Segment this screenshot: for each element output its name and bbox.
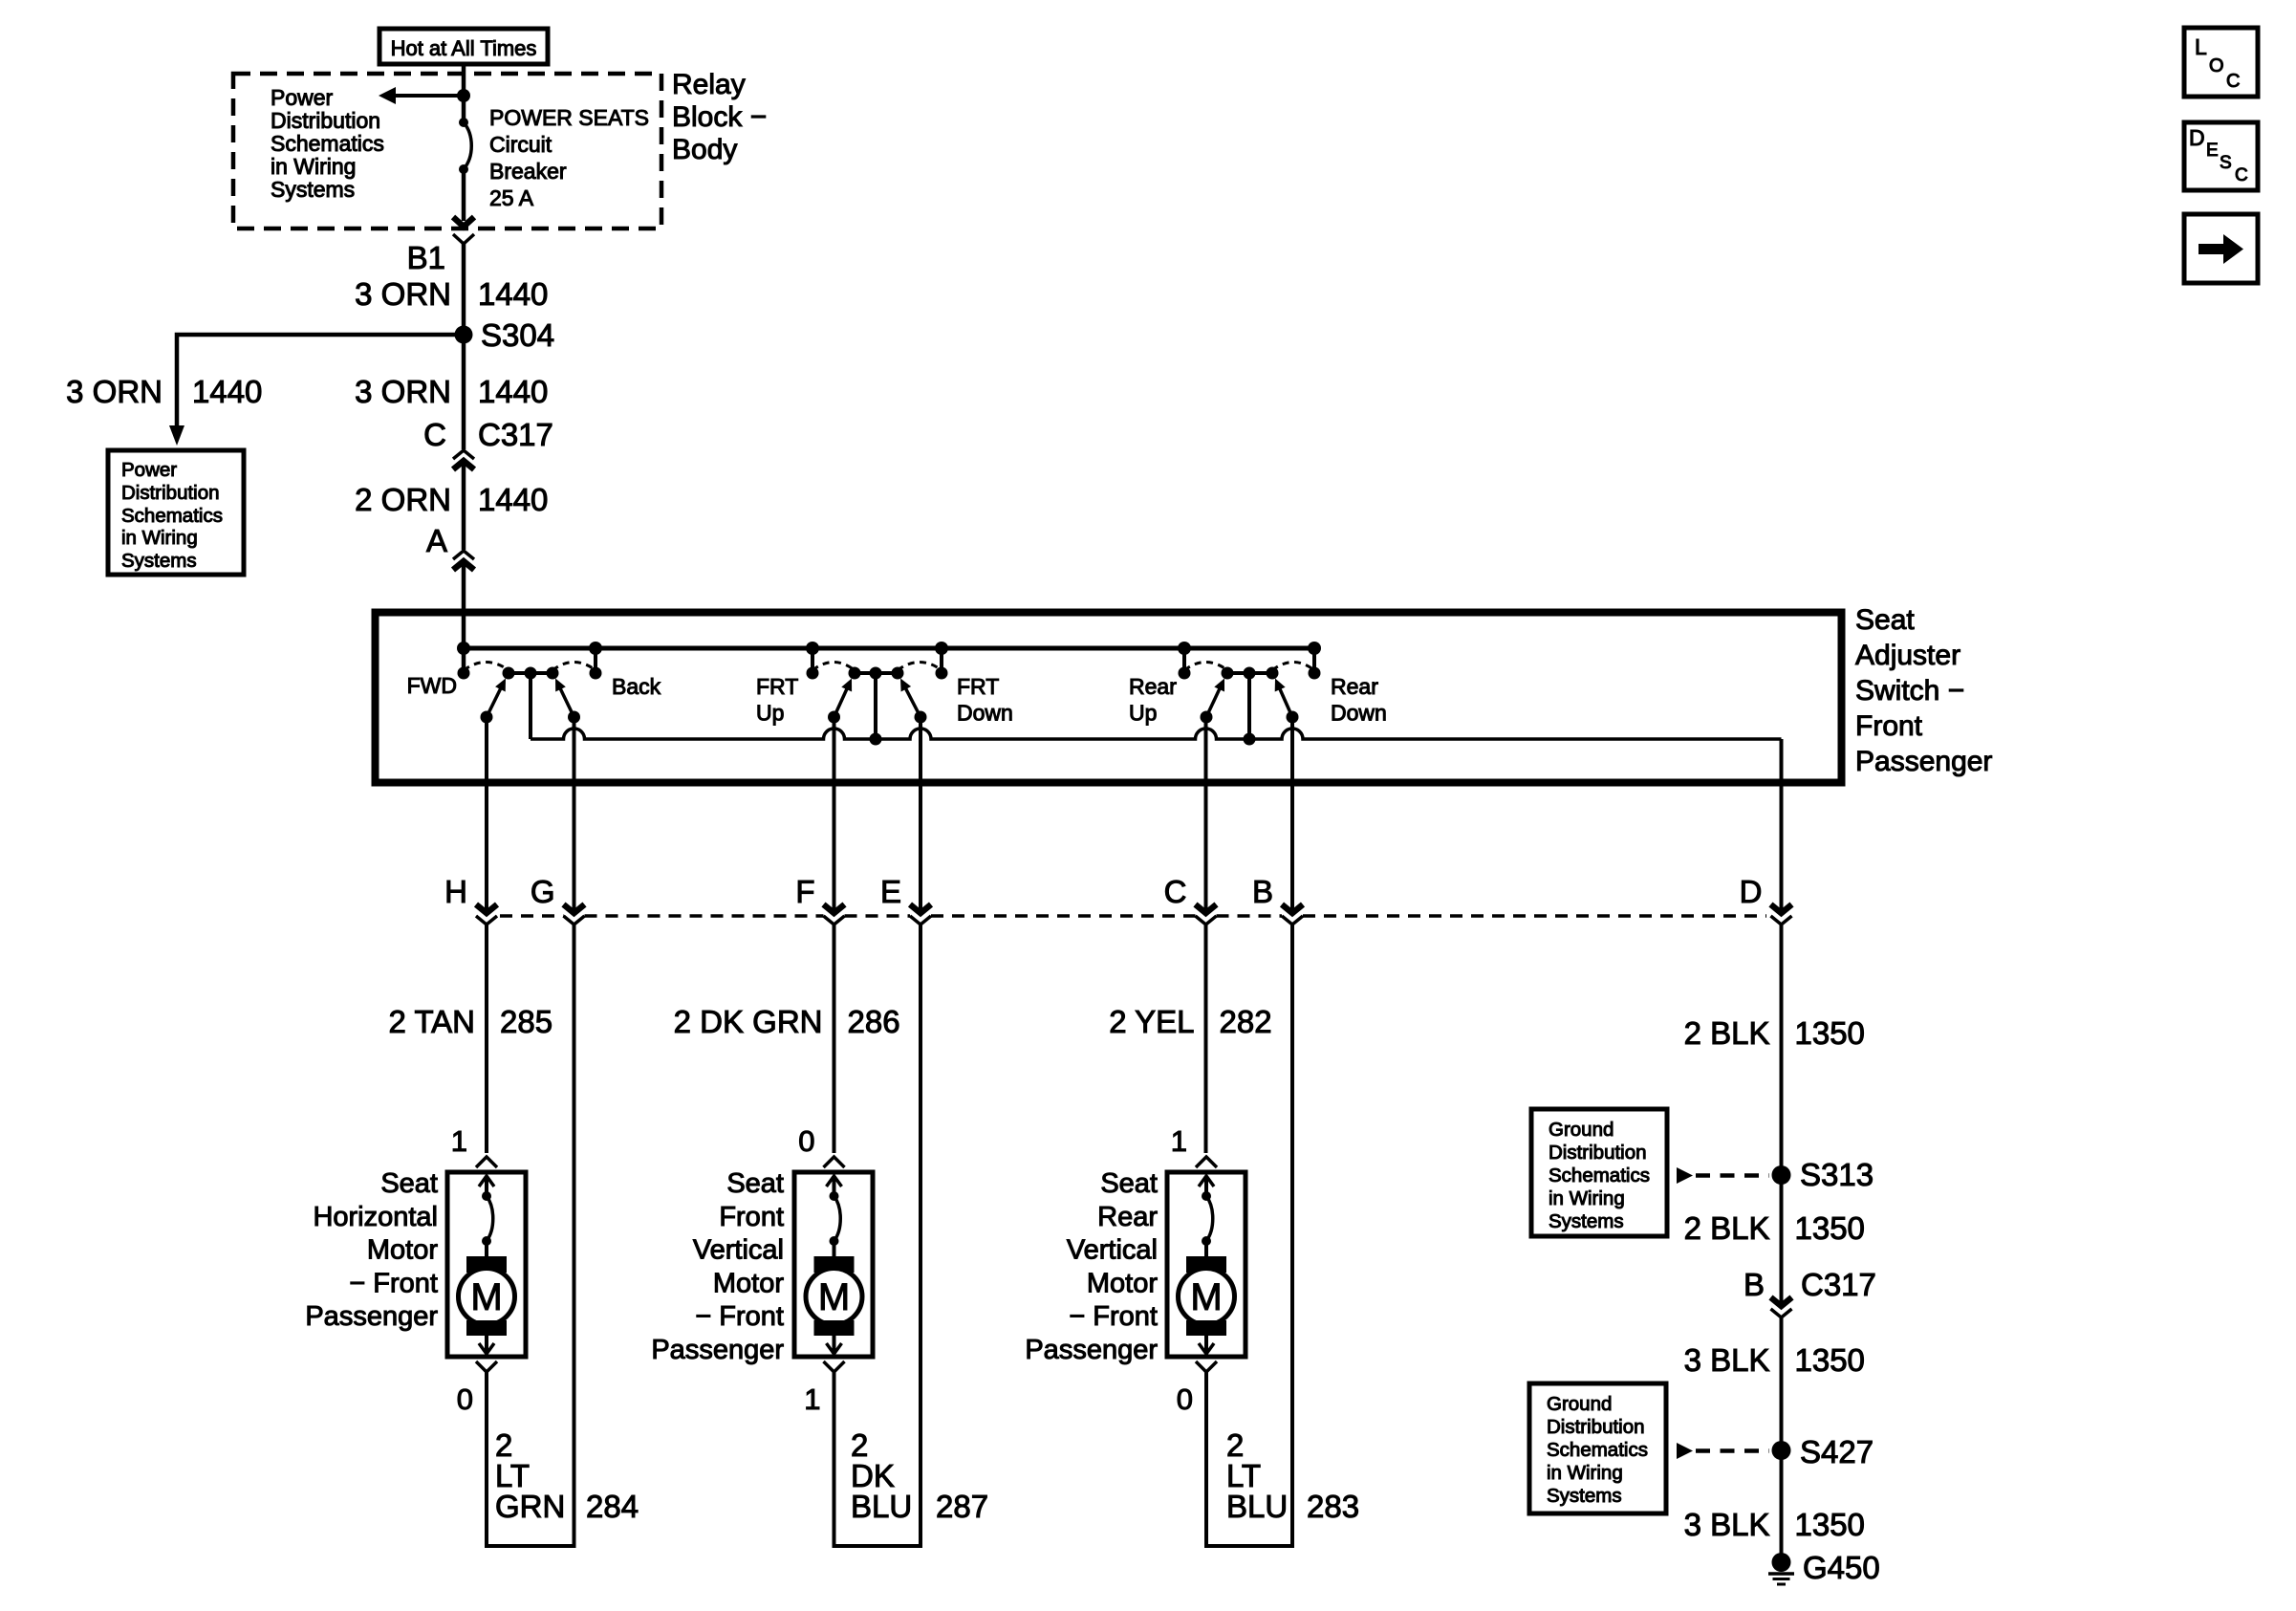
wire: motor output down (833, 1372, 836, 1546)
wire: bus stub right (940, 648, 943, 673)
svg-text:S313: S313 (1800, 1157, 1874, 1192)
svg-text:Hot at All Times: Hot at All Times (391, 36, 537, 60)
svg-text:Vertical: Vertical (1067, 1235, 1158, 1266)
contact dot right (590, 667, 602, 680)
wiper dot right (568, 711, 580, 724)
connector pin E (910, 904, 931, 913)
motor brush bottom (1186, 1320, 1226, 1336)
common dot middle (870, 667, 882, 680)
svg-text:FWD: FWD (407, 673, 457, 698)
wire: 2 YEL 282 (C to rear vertical motor) (1204, 925, 1208, 1153)
seat adjuster switch - front passenger (box) (376, 613, 1842, 783)
svg-text:Systems: Systems (1549, 1210, 1624, 1232)
relay block - body (dashed outline) (233, 74, 661, 229)
svg-text:B: B (1252, 874, 1273, 909)
svg-text:A: A (426, 523, 447, 558)
wiper dot right (915, 711, 927, 724)
svg-text:1350: 1350 (1795, 1210, 1865, 1246)
connector pin B (1282, 904, 1303, 913)
dashed switch throw arc left (464, 663, 509, 671)
svg-text:Front: Front (719, 1202, 784, 1232)
arrowhead down into power distribution box (169, 425, 184, 446)
wire: switch output D (1780, 739, 1784, 909)
svg-text:C: C (423, 417, 446, 452)
svg-text:− Front: − Front (695, 1301, 784, 1332)
svg-text:Distribution: Distribution (121, 482, 220, 504)
wire: E return 287 (919, 925, 922, 1546)
wire: 3 ORN 1440 from S304 to C317 (462, 337, 466, 449)
svg-text:285: 285 (500, 1004, 552, 1039)
connector above motor (pin 1) (1196, 1157, 1217, 1167)
svg-text:E: E (2206, 141, 2219, 161)
svg-text:M: M (470, 1276, 502, 1318)
svg-text:Systems: Systems (271, 177, 355, 202)
svg-text:Passenger: Passenger (1025, 1335, 1158, 1365)
svg-text:Down: Down (1331, 701, 1387, 726)
wire: 2 BLK 1350 (D ground) (1780, 925, 1784, 1302)
svg-text:282: 282 (1220, 1004, 1272, 1039)
wiper arm right (903, 684, 921, 717)
svg-text:Motor: Motor (367, 1235, 438, 1266)
svg-text:in Wiring: in Wiring (1547, 1462, 1623, 1484)
svg-text:FRT: FRT (756, 674, 798, 699)
svg-text:3 ORN: 3 ORN (66, 374, 162, 409)
junction dot common/FRT tap (870, 733, 882, 746)
svg-text:Up: Up (756, 701, 784, 726)
motor brush bottom (814, 1320, 855, 1336)
svg-text:284: 284 (586, 1489, 639, 1524)
junction dot at power distribution tap (457, 89, 470, 102)
svg-text:1: 1 (1171, 1124, 1187, 1158)
svg-text:S: S (2220, 153, 2232, 173)
junction: bus dot right (589, 642, 602, 655)
svg-text:Power: Power (121, 459, 177, 481)
dashed leader to S313 (1677, 1167, 1693, 1184)
motor internal arrow up (485, 1177, 488, 1195)
wiper arm right (558, 684, 574, 717)
svg-text:3 BLK: 3 BLK (1684, 1342, 1770, 1378)
svg-text:Seat: Seat (380, 1168, 438, 1199)
splice S304 (455, 326, 473, 344)
switch common bar (855, 671, 898, 675)
wire: middle tap to common line (529, 673, 532, 739)
wiper arm left (487, 684, 503, 717)
svg-text:Back: Back (612, 674, 661, 699)
wire: breaker output (462, 169, 466, 221)
motor internal arrow down (833, 1336, 836, 1351)
motor brush bottom (466, 1320, 507, 1336)
svg-text:− Front: − Front (349, 1268, 438, 1298)
wire: middle tap to common line (874, 673, 877, 739)
dashed switch throw arc right (552, 663, 596, 671)
svg-text:Breaker: Breaker (489, 159, 567, 184)
svg-text:0: 0 (798, 1124, 814, 1158)
svg-text:− Front: − Front (1069, 1301, 1158, 1332)
svg-text:2 ORN: 2 ORN (355, 482, 451, 517)
wire: switch output H (485, 717, 488, 909)
forward arrow legend box (2184, 214, 2258, 283)
wire: 3 ORN 1440 from B1 to S304 (462, 244, 466, 335)
wire: 2 ORN 1440 (462, 462, 466, 550)
svg-text:Block −: Block − (672, 101, 767, 133)
dashed in-line connector row (500, 914, 564, 918)
motor breaker dots and arc (830, 1191, 839, 1201)
svg-text:0: 0 (457, 1382, 473, 1416)
svg-text:E: E (880, 874, 901, 909)
wire: switch output C (1204, 717, 1208, 909)
svg-text:B1: B1 (407, 240, 445, 275)
motor M circle (459, 1269, 515, 1325)
wiper arm left (1206, 684, 1222, 717)
switch common bar (1227, 671, 1272, 675)
svg-text:Distribution: Distribution (1549, 1142, 1647, 1164)
wire: switch output E (919, 717, 922, 909)
svg-text:in Wiring: in Wiring (271, 154, 356, 179)
splice S313 (1772, 1165, 1791, 1185)
common dot left (849, 667, 861, 680)
svg-text:Down: Down (957, 701, 1013, 726)
svg-text:Body: Body (672, 134, 737, 165)
wiper dot left (481, 711, 493, 724)
switch common bar (509, 671, 552, 675)
common dot right (892, 667, 904, 680)
dashed switch throw arc left (1184, 663, 1227, 671)
motor internal arrow down (485, 1336, 488, 1351)
junction: bus dot left (1178, 642, 1191, 655)
svg-text:2 DK GRN: 2 DK GRN (674, 1004, 823, 1039)
svg-text:Rear: Rear (1097, 1202, 1158, 1232)
svg-text:Passenger: Passenger (305, 1301, 438, 1332)
svg-text:3 BLK: 3 BLK (1684, 1507, 1770, 1542)
connector pin H (476, 904, 497, 913)
svg-text:L: L (2195, 34, 2207, 59)
svg-text:Adjuster: Adjuster (1855, 640, 1960, 671)
svg-text:C: C (2226, 71, 2240, 92)
svg-text:Systems: Systems (1547, 1485, 1622, 1507)
DESC legend box (2184, 122, 2258, 190)
wire: motor output down (1204, 1372, 1208, 1546)
svg-text:Seat: Seat (1100, 1168, 1158, 1199)
svg-text:BLU: BLU (1226, 1489, 1288, 1524)
svg-text:Passenger: Passenger (1855, 746, 1992, 777)
wire: hot feed into relay block (462, 64, 466, 122)
dashed switch throw arc left (812, 663, 855, 671)
svg-text:D: D (1740, 874, 1763, 909)
svg-text:M: M (818, 1276, 850, 1318)
svg-text:1350: 1350 (1795, 1507, 1865, 1542)
svg-text:O: O (2209, 55, 2224, 76)
forward arrow icon (2199, 234, 2243, 264)
wire: bus stub right (594, 648, 597, 673)
svg-text:F: F (795, 874, 814, 909)
LOC legend box (2184, 28, 2258, 97)
svg-text:Switch −: Switch − (1855, 675, 1964, 707)
connector pin C (1196, 904, 1217, 913)
junction dot common/Rear tap (1244, 733, 1256, 746)
svg-text:Rear: Rear (1129, 674, 1177, 699)
wire: bus stub left (811, 648, 814, 673)
wire: 2 TAN 285 (H to horizontal motor) (485, 925, 488, 1153)
connector pin F (824, 904, 845, 913)
svg-text:FRT: FRT (957, 674, 999, 699)
svg-text:Systems: Systems (121, 550, 197, 572)
svg-text:286: 286 (848, 1004, 900, 1039)
dashed switch throw arc right (1272, 663, 1314, 671)
svg-text:Distribution: Distribution (1547, 1416, 1645, 1438)
svg-text:2 BLK: 2 BLK (1684, 1210, 1770, 1246)
svg-text:Ground: Ground (1547, 1393, 1612, 1415)
svg-text:1350: 1350 (1795, 1015, 1865, 1051)
svg-text:BLU: BLU (851, 1489, 912, 1524)
dashed switch throw arc right (898, 663, 942, 671)
power distribution schematics reference box (108, 450, 244, 575)
contact dot right (936, 667, 948, 680)
common dot middle (525, 667, 537, 680)
svg-text:Front: Front (1855, 710, 1923, 742)
svg-text:G: G (531, 874, 555, 909)
svg-text:3 ORN: 3 ORN (355, 276, 451, 312)
wire: switch output F (833, 717, 836, 909)
dashed leader to S427 (1677, 1443, 1693, 1459)
svg-text:Relay: Relay (672, 69, 746, 100)
common dot left (1222, 667, 1234, 680)
svg-text:Vertical: Vertical (693, 1235, 784, 1266)
motor internal arrow up (833, 1177, 836, 1195)
svg-text:C317: C317 (478, 417, 553, 452)
wire: switch output B (1290, 717, 1294, 909)
Hot at All Times label box (379, 29, 548, 64)
wire: 2 DK GRN 286 (F to front vertical motor) (833, 925, 836, 1153)
svg-text:in Wiring: in Wiring (1549, 1187, 1625, 1209)
splice S427 (1772, 1441, 1791, 1460)
contact dot right (1309, 667, 1321, 680)
wire: switch common return to pin D (531, 729, 1782, 739)
contact dot left (458, 667, 470, 680)
contact dot left (807, 667, 819, 680)
svg-text:0: 0 (1177, 1382, 1193, 1416)
wire: B return 283 (1290, 925, 1294, 1546)
motor breaker dots and arc (1202, 1191, 1211, 1201)
ground G450 (1772, 1553, 1791, 1572)
wire: 3 BLK 1350 (1780, 1317, 1784, 1562)
svg-text:1440: 1440 (192, 374, 262, 409)
junction: bus dot left (457, 642, 470, 655)
svg-text:3 ORN: 3 ORN (355, 374, 451, 409)
wire: bus stub right (1312, 648, 1316, 673)
motor breaker dots and arc (482, 1191, 491, 1201)
motor brush top (814, 1256, 855, 1273)
common dot right (547, 667, 559, 680)
svg-text:B: B (1744, 1267, 1765, 1302)
connector pin D (1771, 904, 1792, 913)
wire: loop to G (485, 1544, 576, 1548)
ground distribution schematics box (upper) (1531, 1109, 1667, 1236)
svg-text:C: C (1164, 874, 1187, 909)
motor internal arrow up (1204, 1177, 1208, 1195)
svg-text:H: H (444, 874, 467, 909)
svg-text:1: 1 (804, 1382, 820, 1416)
svg-text:Motor: Motor (713, 1268, 784, 1298)
svg-text:1350: 1350 (1795, 1342, 1865, 1378)
motor case (794, 1172, 873, 1357)
svg-text:1440: 1440 (478, 482, 548, 517)
wire: middle tap to common line (1247, 673, 1251, 739)
svg-text:Ground: Ground (1549, 1119, 1614, 1141)
svg-text:2 YEL: 2 YEL (1109, 1004, 1194, 1039)
connector below motor (pin 0) (1196, 1361, 1217, 1372)
svg-text:S304: S304 (481, 317, 554, 353)
connector below motor (pin 0) (476, 1361, 497, 1372)
svg-text:Schematics: Schematics (1549, 1165, 1650, 1186)
wire: loop to E (833, 1544, 923, 1548)
svg-text:Rear: Rear (1331, 674, 1378, 699)
motor M circle (806, 1269, 862, 1325)
svg-text:Schematics: Schematics (121, 505, 223, 527)
wire: branch to power distribution (177, 335, 464, 425)
motor M circle (1179, 1269, 1235, 1325)
svg-text:2 TAN: 2 TAN (389, 1004, 475, 1039)
wiper dot left (1201, 711, 1213, 724)
svg-text:Power: Power (271, 85, 334, 110)
connector pin G (564, 904, 585, 913)
svg-text:Motor: Motor (1087, 1268, 1158, 1298)
svg-text:C317: C317 (1801, 1267, 1876, 1302)
svg-text:25 A: 25 A (489, 185, 534, 210)
contact dot left (1179, 667, 1191, 680)
wire: into seat adjuster switch (462, 562, 466, 673)
wiper arm left (834, 684, 850, 717)
wiper arm right (1277, 684, 1292, 717)
junction: bus dot right (1308, 642, 1321, 655)
wiper dot left (828, 711, 840, 724)
svg-text:POWER SEATS: POWER SEATS (489, 105, 649, 130)
svg-text:1: 1 (451, 1124, 467, 1158)
svg-text:Passenger: Passenger (651, 1335, 784, 1365)
bus wire inside switch (464, 646, 1314, 651)
svg-text:Schematics: Schematics (271, 131, 384, 156)
wire: bus stub left (1182, 648, 1186, 673)
svg-text:Distribution: Distribution (271, 108, 380, 133)
motor brush top (466, 1256, 507, 1273)
ground distribution schematics box (lower) (1529, 1383, 1666, 1513)
common dot right (1267, 667, 1279, 680)
wire: loop to B (1204, 1544, 1294, 1548)
svg-text:283: 283 (1307, 1489, 1359, 1524)
junction: bus dot right (935, 642, 948, 655)
junction: bus dot left (806, 642, 819, 655)
svg-text:1440: 1440 (478, 276, 548, 312)
wiper dot right (1287, 711, 1299, 724)
svg-text:Horizontal: Horizontal (313, 1202, 438, 1232)
motor brush top (1186, 1256, 1226, 1273)
wire: G return 284 (573, 925, 576, 1546)
svg-text:Seat: Seat (1855, 604, 1915, 636)
svg-text:Circuit: Circuit (489, 132, 552, 157)
svg-text:G450: G450 (1803, 1550, 1880, 1585)
svg-text:Up: Up (1129, 701, 1157, 726)
svg-text:GRN: GRN (495, 1489, 565, 1524)
motor case (447, 1172, 526, 1357)
svg-text:in Wiring: in Wiring (121, 527, 198, 549)
arrow to power distribution schematics (395, 94, 464, 98)
connector below motor (pin 1) (824, 1361, 845, 1372)
common dot left (503, 667, 515, 680)
connector pin B1 (relay block exit) (453, 217, 474, 227)
svg-text:C: C (2235, 165, 2248, 185)
arrowhead left (379, 87, 396, 104)
motor internal arrow down (1204, 1336, 1208, 1351)
wire: bus stub left (462, 648, 466, 673)
connector above motor (pin 0) (824, 1157, 845, 1167)
circuit breaker POWER SEATS 25A (459, 118, 468, 127)
svg-text:1440: 1440 (478, 374, 548, 409)
motor case (1167, 1172, 1245, 1357)
svg-text:287: 287 (936, 1489, 988, 1524)
svg-text:M: M (1190, 1276, 1222, 1318)
svg-text:Seat: Seat (726, 1168, 784, 1199)
svg-text:S427: S427 (1800, 1434, 1874, 1469)
wire: switch output G (573, 717, 576, 909)
svg-text:D: D (2189, 125, 2205, 150)
connector above motor (pin 1) (476, 1157, 497, 1167)
svg-text:Schematics: Schematics (1547, 1439, 1648, 1461)
wire: motor output down (485, 1372, 488, 1546)
common dot middle (1244, 667, 1256, 680)
svg-text:2 BLK: 2 BLK (1684, 1015, 1770, 1051)
